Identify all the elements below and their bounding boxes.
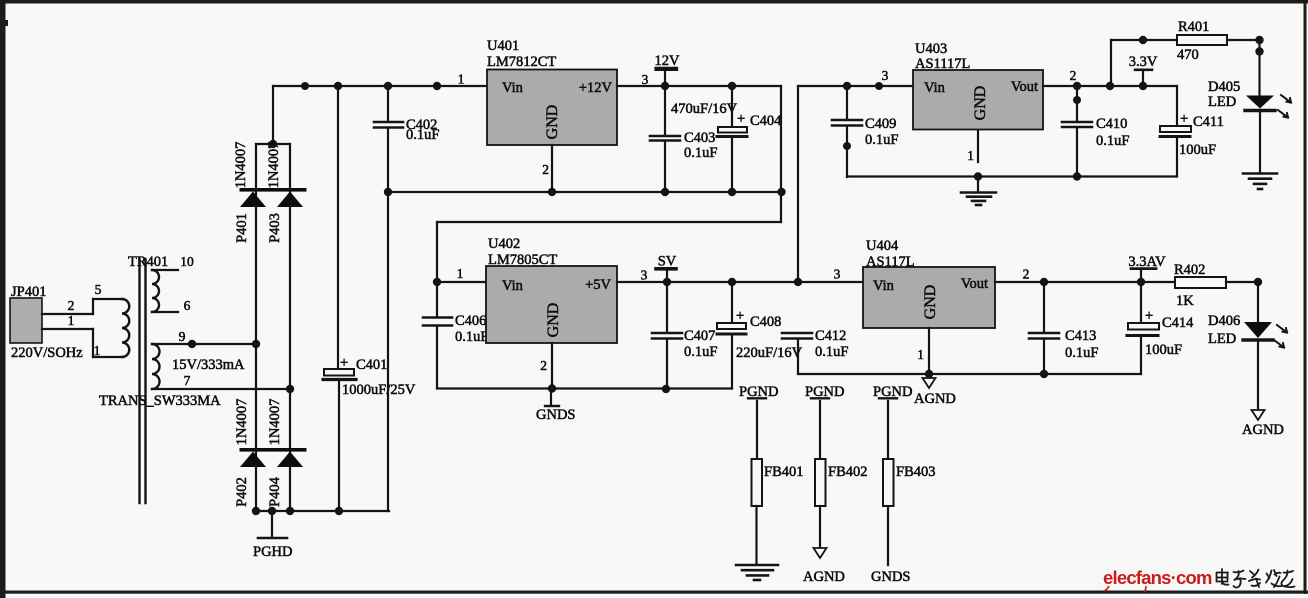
- svg-text:0.1uF: 0.1uF: [684, 344, 717, 360]
- svg-text:3: 3: [834, 267, 841, 282]
- svg-text:U404: U404: [866, 238, 899, 254]
- svg-text:+: +: [1145, 308, 1153, 324]
- wire feed line to U402: [437, 221, 781, 223]
- ground AGND of D406: [1242, 410, 1284, 438]
- svg-text:FB402: FB402: [828, 464, 868, 480]
- regulator U401 LM7812CT: [487, 70, 617, 146]
- capacitor C413 0.1uF: [1029, 282, 1059, 378]
- C406 designator: [455, 313, 486, 329]
- ground GNDS of U402: [536, 389, 575, 424]
- U404 pin number 2: [1023, 267, 1030, 282]
- C411 designator: [1193, 114, 1224, 130]
- svg-text:+: +: [736, 308, 744, 324]
- power symbol 3.3AV: [1128, 254, 1166, 282]
- svg-text:FB403: FB403: [896, 464, 936, 480]
- svg-text:1N4007: 1N4007: [266, 142, 282, 189]
- svg-text:0.1uF: 0.1uF: [684, 145, 717, 161]
- D405 label LED: [1208, 94, 1236, 110]
- designator P404: [267, 476, 283, 507]
- label 1N4007 of P402: [234, 399, 250, 446]
- power symbol 12V: [655, 53, 681, 86]
- wire U402 Vin: [437, 281, 486, 283]
- svg-text:12V: 12V: [655, 53, 681, 69]
- capacitor C403 0.1uF: [650, 86, 680, 192]
- D406 designator: [1208, 313, 1240, 329]
- capacitor C414 100uF: [1127, 282, 1159, 374]
- LED D405: [1245, 95, 1291, 118]
- wire U402 pin2 to gnd rail: [551, 343, 553, 389]
- svg-text:C413: C413: [1065, 328, 1096, 344]
- svg-text:Vout: Vout: [961, 276, 988, 292]
- svg-text:LED: LED: [1208, 331, 1236, 347]
- wire U404 pin1 stub: [928, 328, 930, 374]
- designator P401: [234, 213, 250, 243]
- svg-text:AS1117L: AS1117L: [915, 56, 970, 72]
- svg-text:1N4007: 1N4007: [234, 399, 250, 446]
- svg-text:P404: P404: [267, 476, 283, 507]
- transformer value 15V/333mA: [172, 357, 245, 373]
- earth ground of FB401: [736, 565, 778, 580]
- ferrite bead FB403: [883, 459, 894, 506]
- capacitor C412 0.1uF: [782, 333, 812, 374]
- svg-text:Vin: Vin: [502, 278, 524, 294]
- transformer TR401 label: [128, 254, 168, 270]
- capacitor C404 470uF/16V: [717, 86, 747, 192]
- C413 designator: [1065, 328, 1096, 344]
- svg-text:C408: C408: [750, 314, 781, 330]
- diode P401 1N4007: [240, 192, 266, 208]
- earth ground of U403: [961, 177, 996, 206]
- svg-text:6: 6: [184, 298, 191, 313]
- svg-text:P403: P403: [267, 213, 283, 243]
- U403 designator: [915, 41, 947, 57]
- C406 value: [455, 329, 488, 345]
- U404 pin number 3: [834, 267, 841, 282]
- C403 designator: [684, 130, 715, 146]
- wire diode pair top tie: [256, 143, 290, 145]
- svg-text:7: 7: [184, 373, 191, 388]
- svg-text:15V/333mA: 15V/333mA: [172, 357, 245, 373]
- svg-text:3: 3: [642, 72, 649, 87]
- wire U401 pin2 to gnd rail: [551, 145, 553, 192]
- ferrite bead FB402: [815, 459, 826, 506]
- svg-text:U402: U402: [488, 236, 520, 252]
- C414 value 100uF: [1145, 342, 1182, 358]
- U402 designator: [488, 236, 520, 252]
- C407 value: [684, 344, 717, 360]
- svg-text:FB401: FB401: [764, 464, 804, 480]
- logo chinese 电子发烧友: [1217, 569, 1295, 588]
- designator P402: [234, 477, 250, 507]
- transformer secondary winding top (pins 10,6): [152, 270, 178, 312]
- transformer TR401 primary winding: [93, 299, 129, 357]
- wire bottom common rail: [252, 507, 389, 515]
- svg-text:0.1uF: 0.1uF: [1096, 133, 1129, 149]
- svg-text:3.3V: 3.3V: [1129, 54, 1158, 70]
- C412 value: [815, 344, 848, 360]
- svg-text:C410: C410: [1096, 116, 1127, 132]
- label 1N4007 of P403: [266, 142, 282, 189]
- wire U404 Vout rail: [995, 278, 1175, 286]
- R401 designator: [1178, 19, 1209, 35]
- svg-text:U401: U401: [487, 38, 519, 54]
- wire R401 to LED D405: [1227, 36, 1264, 95]
- svg-text:1: 1: [917, 347, 924, 362]
- svg-text:C411: C411: [1193, 114, 1224, 130]
- svg-text:P401: P401: [234, 213, 250, 243]
- svg-text:R402: R402: [1174, 262, 1205, 278]
- svg-text:+5V: +5V: [585, 277, 611, 293]
- C413 value: [1065, 345, 1098, 361]
- svg-text:GND: GND: [544, 105, 561, 140]
- svg-text:elecfans·com: elecfans·com: [1103, 567, 1212, 588]
- C408 value 220uF/16V: [736, 345, 803, 361]
- wire 12V drop to feed line: [777, 86, 785, 222]
- wire PGND to FB401: [756, 401, 758, 459]
- wire D406 to AGND: [1257, 341, 1259, 409]
- wire U401 output 12V rail: [617, 82, 781, 90]
- C411 plus sign: [1180, 111, 1188, 127]
- svg-text:1K: 1K: [1176, 293, 1194, 309]
- svg-text:D405: D405: [1208, 79, 1240, 95]
- svg-text:470uF/16V: 470uF/16V: [671, 101, 738, 117]
- U401 pin number 2: [542, 162, 549, 177]
- svg-text:0.1uF: 0.1uF: [815, 344, 848, 360]
- capacitor C411 100uF: [1160, 86, 1191, 177]
- svg-text:C403: C403: [684, 130, 715, 146]
- svg-text:JP401: JP401: [11, 284, 46, 300]
- svg-text:R401: R401: [1178, 19, 1209, 35]
- wire secondary pin7 to diode column B: [152, 385, 294, 393]
- C410 designator: [1096, 116, 1127, 132]
- svg-text:Vout: Vout: [1011, 79, 1038, 95]
- svg-text:3: 3: [882, 68, 889, 83]
- svg-text:470: 470: [1177, 47, 1199, 63]
- svg-text:TRANS_SW333MA: TRANS_SW333MA: [99, 393, 221, 409]
- svg-text:0.1uF: 0.1uF: [865, 132, 898, 148]
- svg-text:1: 1: [458, 72, 465, 87]
- svg-text:TR401: TR401: [128, 254, 168, 270]
- svg-text:1: 1: [457, 266, 464, 281]
- capacitor C409 0.1uF: [832, 86, 862, 177]
- svg-text:+: +: [1180, 111, 1188, 127]
- svg-text:C406: C406: [455, 313, 486, 329]
- label 1N4007 of P401: [233, 142, 249, 189]
- diode P404 1N4007: [240, 448, 307, 467]
- C401 plus sign: [340, 355, 348, 371]
- regulator U404 AS117L: [863, 267, 995, 328]
- C408 plus sign: [736, 308, 744, 324]
- svg-text:C407: C407: [684, 328, 715, 344]
- wire U404 gnd rail: [798, 370, 1141, 378]
- net label PGND of FB402: [805, 384, 844, 400]
- earth ground of D405: [1243, 174, 1277, 190]
- wire FB403 to GNDS: [887, 506, 889, 565]
- R402 designator: [1174, 262, 1205, 278]
- wire FB402 to AGND: [819, 506, 821, 547]
- U401 part LM7812CT: [487, 54, 556, 70]
- wire FB401 to earth: [755, 506, 757, 564]
- svg-text:Vin: Vin: [873, 278, 895, 294]
- C414 designator: [1162, 315, 1194, 331]
- wire 5V feed up to U403 Vin: [798, 82, 913, 282]
- C402 value: [406, 127, 439, 143]
- U404 part AS117L: [866, 254, 915, 270]
- svg-text:1N4007: 1N4007: [233, 142, 249, 189]
- wire PGND to FB403: [887, 401, 889, 459]
- transformer name TRANS_SW333MA: [99, 393, 221, 409]
- svg-text:1000uF/25V: 1000uF/25V: [342, 382, 416, 398]
- svg-text:LED: LED: [1208, 94, 1236, 110]
- resistor R402 1K: [1175, 277, 1226, 288]
- ground GNDS of FB403: [871, 569, 910, 585]
- C410 value: [1096, 133, 1129, 149]
- C408 designator: [750, 314, 781, 330]
- svg-text:C404: C404: [750, 113, 782, 129]
- R401 value 470: [1177, 47, 1199, 63]
- U401 pin number 3: [642, 72, 649, 87]
- svg-text:D406: D406: [1208, 313, 1240, 329]
- U401 designator: [487, 38, 519, 54]
- C407 designator: [684, 328, 715, 344]
- U403 pin number 2: [1070, 68, 1077, 83]
- svg-text:Vin: Vin: [502, 80, 524, 96]
- U403 pin number 1: [967, 148, 974, 163]
- D405 designator: [1208, 79, 1240, 95]
- U402 pin number 1: [457, 266, 464, 281]
- svg-text:2: 2: [542, 162, 549, 177]
- net label PGND of FB403: [873, 384, 912, 400]
- transformer secondary winding bottom (pins 9,7): [152, 344, 160, 389]
- svg-text:+: +: [737, 111, 745, 127]
- svg-text:GND: GND: [922, 285, 939, 320]
- svg-text:3: 3: [641, 268, 648, 283]
- svg-text:0.1uF: 0.1uF: [455, 329, 488, 345]
- wire R402 to LED D406: [1226, 278, 1262, 322]
- svg-text:+: +: [340, 355, 348, 371]
- svg-text:C414: C414: [1162, 315, 1194, 331]
- wire PGND to FB402: [819, 401, 821, 459]
- wire R401 left leg: [1111, 36, 1177, 86]
- wire U403 pin1 stub: [977, 130, 979, 162]
- svg-text:2: 2: [68, 298, 75, 313]
- transformer core: [140, 259, 146, 503]
- svg-text:1: 1: [94, 343, 101, 358]
- pin number 1: [68, 313, 75, 328]
- svg-text:GND: GND: [545, 303, 562, 338]
- secondary pin number 10: [180, 254, 194, 269]
- C401 designator: [356, 357, 387, 373]
- wire JP401 pin2 to primary: [42, 313, 93, 315]
- svg-text:1: 1: [68, 313, 75, 328]
- svg-text:2: 2: [540, 358, 547, 373]
- net label PGND of FB401: [739, 384, 778, 400]
- C412 designator: [815, 328, 846, 344]
- wire rectifier top rail to U401 Vin: [273, 82, 487, 90]
- svg-text:2: 2: [1070, 68, 1077, 83]
- svg-text:LM7812CT: LM7812CT: [487, 54, 556, 70]
- svg-text:220uF/16V: 220uF/16V: [736, 345, 803, 361]
- C401 value 1000uF/25V: [342, 382, 416, 398]
- svg-text:100uF: 100uF: [1179, 142, 1216, 158]
- svg-text:U403: U403: [915, 41, 947, 57]
- primary pin number 5: [95, 282, 102, 297]
- pin number 2: [68, 298, 75, 313]
- C411 value 100uF: [1179, 142, 1216, 158]
- U401 pin number 1: [458, 72, 465, 87]
- U404 pin number 1: [917, 347, 924, 362]
- svg-text:GNDS: GNDS: [871, 569, 910, 585]
- svg-text:5: 5: [95, 282, 102, 297]
- svg-text:100uF: 100uF: [1145, 342, 1182, 358]
- svg-text:GND: GND: [972, 86, 989, 121]
- ground PGHD: [253, 511, 292, 560]
- label 1N4007 of P404: [267, 399, 283, 446]
- capacitor C408 220uF/16V: [717, 282, 746, 389]
- wire U402 output 5V rail: [617, 278, 863, 286]
- svg-text:AS117L: AS117L: [866, 254, 915, 270]
- capacitor C406 0.1uF: [423, 318, 452, 389]
- designator P403: [267, 213, 283, 243]
- C403 value: [684, 145, 717, 161]
- svg-text:C409: C409: [865, 116, 896, 132]
- primary pin number 1: [94, 343, 101, 358]
- svg-text:1N4007: 1N4007: [267, 399, 283, 446]
- U402 part LM7805CT: [488, 252, 557, 268]
- C404 designator: [750, 113, 782, 129]
- diode P402 1N4007: [240, 452, 266, 468]
- capacitor C407 0.1uF: [652, 282, 682, 389]
- regulator U403 AS1117L: [913, 70, 1043, 130]
- wire JP401 pin1 to primary: [42, 328, 93, 330]
- secondary pin number 6: [184, 298, 191, 313]
- svg-text:1: 1: [967, 148, 974, 163]
- svg-text:2: 2: [1023, 267, 1030, 282]
- secondary pin number 7: [184, 373, 191, 388]
- svg-text:LM7805CT: LM7805CT: [488, 252, 557, 268]
- ground AGND of FB402: [803, 548, 845, 585]
- svg-text:C401: C401: [356, 357, 387, 373]
- svg-text:AGND: AGND: [914, 391, 956, 407]
- capacitor C401 1000uF/25V: [323, 86, 356, 511]
- wire D405 cathode to earth: [1259, 112, 1261, 172]
- wire U401 gnd rail: [384, 188, 781, 196]
- wire U402 gnd rail: [437, 384, 732, 393]
- svg-text:0.1uF: 0.1uF: [1065, 345, 1098, 361]
- svg-text:GNDS: GNDS: [536, 407, 575, 423]
- secondary pin number 9: [179, 329, 186, 344]
- FB403 designator: [896, 464, 936, 480]
- power symbol SV: [656, 254, 677, 283]
- C402 designator: [406, 117, 437, 133]
- svg-text:P402: P402: [234, 477, 250, 507]
- ground AGND of U404: [914, 378, 956, 407]
- U402 pin number 2: [540, 358, 547, 373]
- svg-text:Vin: Vin: [924, 80, 946, 96]
- svg-text:PGHD: PGHD: [253, 544, 292, 560]
- svg-text:C412: C412: [815, 328, 846, 344]
- wire diode column A vertical: [255, 144, 257, 511]
- resistor R401 470: [1177, 35, 1227, 45]
- capacitor C402 0.1uF: [374, 86, 403, 511]
- R402 value 1K: [1176, 293, 1194, 309]
- D406 label LED: [1208, 331, 1236, 347]
- wire U403 Vout rail: [1043, 82, 1177, 90]
- U404 designator: [866, 238, 899, 254]
- FB401 designator: [764, 464, 804, 480]
- U403 part AS1117L: [915, 56, 970, 72]
- U402 pin number 3: [641, 268, 648, 283]
- C409 value: [865, 132, 898, 148]
- wire drop to U402 Vin node: [433, 222, 441, 317]
- connector JP401: [10, 298, 42, 343]
- JP401 label: [11, 284, 46, 300]
- svg-text:0.1uF: 0.1uF: [406, 127, 439, 143]
- logo elecfans.com: [1103, 567, 1212, 592]
- C404 value 470uF/16V: [671, 101, 738, 117]
- svg-text:220V/SOHz: 220V/SOHz: [11, 345, 83, 361]
- ferrite bead FB401: [752, 459, 763, 506]
- wire U403 gnd rail: [847, 172, 1177, 180]
- svg-text:AGND: AGND: [1242, 422, 1284, 438]
- LED D406: [1243, 322, 1287, 348]
- C414 plus sign: [1145, 308, 1153, 324]
- wire secondary pin9 to diode column A: [152, 340, 260, 348]
- wire diode column B vertical: [289, 144, 291, 511]
- power symbol 3.3V: [1129, 54, 1158, 86]
- svg-text:+12V: +12V: [579, 80, 613, 96]
- diode P403 1N4007: [240, 188, 307, 207]
- svg-text:10: 10: [180, 254, 194, 269]
- C404 plus sign: [737, 111, 745, 127]
- regulator U402 LM7805CT: [486, 266, 617, 343]
- svg-text:9: 9: [179, 329, 186, 344]
- JP401 value 220V/SOHz: [11, 345, 83, 361]
- FB402 designator: [828, 464, 868, 480]
- U403 pin number 3: [882, 68, 889, 83]
- wire top rail drop to diode pair: [269, 86, 277, 148]
- C409 designator: [865, 116, 896, 132]
- capacitor C410 0.1uF: [1062, 86, 1092, 177]
- svg-text:AGND: AGND: [803, 569, 845, 585]
